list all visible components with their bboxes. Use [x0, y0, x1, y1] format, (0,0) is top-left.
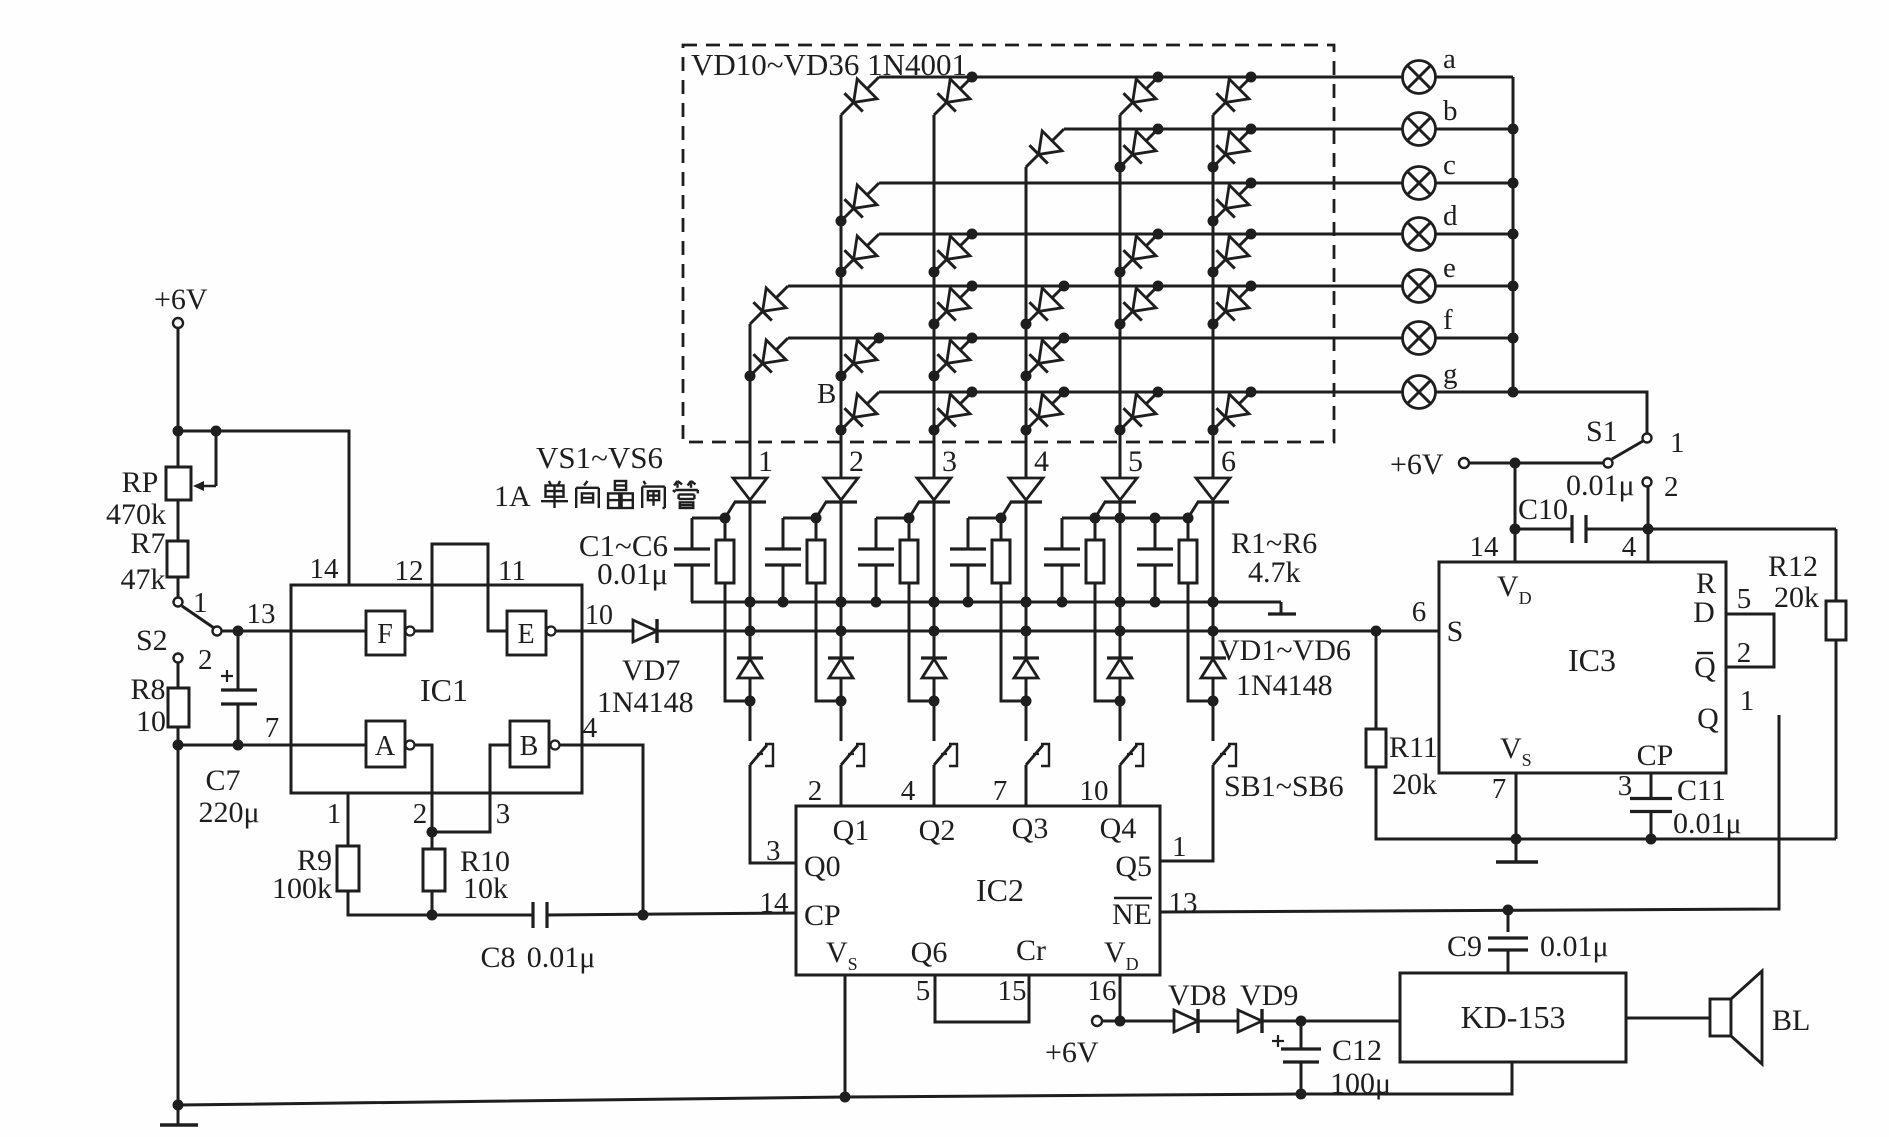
- svg-text:Cr: Cr: [1016, 934, 1046, 967]
- gate node wire VS1: [692, 517, 725, 520]
- wire column 3 (matrix to thyristor): [933, 115, 936, 478]
- resistor R5: [1094, 518, 1097, 540]
- wire gate F output to pin 12/11 bridge to gate E: [414, 544, 507, 631]
- svg-text:F: F: [377, 619, 393, 650]
- wire trigger bus (VD7 to IC3 S): [657, 630, 1439, 633]
- wire thyristor cathode bus: [691, 601, 1281, 604]
- matrix diode VD (row e, column 1): [750, 286, 788, 324]
- svg-text:R8: R8: [130, 673, 165, 706]
- wire column 1 (matrix to thyristor): [749, 324, 752, 478]
- switch S1: [1604, 434, 1652, 487]
- svg-text:1N4148: 1N4148: [597, 686, 694, 719]
- wire column 6 (matrix to thyristor): [1212, 115, 1215, 478]
- svg-text:1A: 1A: [494, 480, 531, 513]
- svg-text:C8: C8: [480, 941, 515, 974]
- wire VS5 cathode down: [1119, 502, 1122, 658]
- matrix diode VD (row d, column 3): [929, 229, 978, 278]
- svg-text:13: 13: [247, 598, 276, 630]
- svg-text:E: E: [517, 619, 534, 650]
- svg-text:+6V: +6V: [1390, 448, 1444, 481]
- svg-text:Q0: Q0: [804, 850, 841, 883]
- matrix diode VD (row b, column 6): [1208, 124, 1257, 173]
- matrix diode VD (row g, column 6): [1208, 387, 1257, 436]
- svg-text:+6V: +6V: [154, 283, 208, 316]
- svg-text:C11: C11: [1677, 774, 1726, 807]
- svg-text:B: B: [817, 378, 836, 410]
- push button SB2: [841, 701, 864, 766]
- gate node wire VS2: [783, 517, 816, 520]
- svg-text:14: 14: [1470, 531, 1500, 563]
- wire IC2 Vs to ground rail: [844, 975, 847, 1097]
- capacitor C12: [1300, 1021, 1303, 1049]
- diode VD7: [633, 619, 657, 643]
- push button SB1: [750, 701, 773, 766]
- svg-text:2: 2: [198, 644, 213, 676]
- svg-text:R11: R11: [1389, 731, 1438, 764]
- svg-text:7: 7: [1492, 773, 1507, 805]
- svg-text:1: 1: [1740, 685, 1755, 717]
- svg-text:e: e: [1443, 252, 1456, 284]
- matrix diode VD (row f, column 3): [929, 333, 978, 382]
- svg-text:C7: C7: [205, 764, 240, 797]
- svg-text:6: 6: [1221, 445, 1236, 478]
- lamp a: [1403, 61, 1436, 94]
- wire C8 line: [432, 914, 533, 917]
- svg-text:S: S: [1447, 615, 1464, 648]
- svg-text:Q3: Q3: [1012, 812, 1049, 845]
- wire IC1 pin13 to gate F input: [222, 630, 366, 633]
- wire column 2 (matrix to thyristor): [840, 115, 843, 478]
- svg-text:C9: C9: [1447, 930, 1482, 963]
- lamp g: [1403, 376, 1436, 409]
- svg-text:15: 15: [998, 975, 1027, 1007]
- svg-text:IC3: IC3: [1568, 642, 1616, 678]
- svg-text:2: 2: [808, 775, 823, 807]
- potentiometer RP: [166, 467, 191, 500]
- matrix diode VD (row b, column 4): [1026, 129, 1064, 167]
- matrix diode VD (row d, column 6): [1208, 229, 1257, 278]
- wire IC3 D (pin5) to Q-bar (pin2): [1726, 614, 1774, 667]
- svg-text:0.01μ: 0.01μ: [597, 556, 668, 591]
- svg-text:4: 4: [901, 775, 916, 807]
- svg-text:c: c: [1443, 149, 1456, 181]
- capacitor C4: [967, 518, 970, 549]
- svg-text:KD-153: KD-153: [1461, 999, 1566, 1035]
- wire VS6 cathode down: [1212, 502, 1215, 658]
- svg-text:BL: BL: [1772, 1004, 1810, 1037]
- capacitor C2: [782, 518, 785, 549]
- svg-text:g: g: [1443, 358, 1458, 390]
- svg-text:Q: Q: [1697, 702, 1719, 735]
- lamp b: [1403, 113, 1436, 146]
- wire +6V node to IC1 pin14: [178, 431, 349, 585]
- matrix diode VD (row b, column 5): [1115, 124, 1164, 173]
- svg-text:b: b: [1443, 95, 1458, 127]
- wire SB6 to IC2 Q5 (pin 1): [1160, 765, 1213, 861]
- svg-text:VS1~VS6: VS1~VS6: [536, 440, 663, 475]
- svg-text:D: D: [1693, 596, 1715, 629]
- wire IC1 pin10 output: [582, 630, 633, 633]
- wire pin7 line: [178, 744, 291, 747]
- resistor R11: [1375, 631, 1378, 729]
- svg-text:VD1~VD6: VD1~VD6: [1218, 634, 1351, 667]
- diode VD5: [1107, 658, 1133, 701]
- terminal +6V (oscillator supply): [173, 318, 183, 328]
- matrix diode VD (row e, column 3): [929, 281, 978, 330]
- thyristor VS3: [909, 478, 951, 518]
- resistor R2: [815, 518, 818, 540]
- matrix diode VD (row g, column 3): [929, 387, 978, 436]
- svg-text:1N4148: 1N4148: [1236, 669, 1333, 702]
- wire +6V down to RP: [177, 328, 180, 467]
- wire row b: [1064, 128, 1403, 131]
- svg-text:Q4: Q4: [1100, 812, 1137, 845]
- ground (IC3): [1496, 839, 1538, 862]
- music IC KD-153: [1400, 973, 1626, 1062]
- svg-text:1: 1: [758, 445, 773, 478]
- svg-text:14: 14: [310, 553, 340, 585]
- svg-text:0.01μ: 0.01μ: [1673, 807, 1742, 840]
- gate node wire VS5: [1062, 517, 1095, 520]
- svg-text:2: 2: [1664, 471, 1679, 503]
- capacitor C3: [875, 518, 878, 549]
- lamp d: [1403, 218, 1436, 251]
- gate A (IC1): [366, 721, 415, 767]
- svg-text:Q: Q: [1694, 651, 1716, 684]
- wire IC3 R (pin4) to S1 contact 2: [1647, 487, 1650, 562]
- svg-text:NE: NE: [1112, 898, 1152, 931]
- svg-text:5: 5: [1128, 445, 1143, 478]
- resistor R6: [1187, 518, 1190, 540]
- capacitor C5: [1061, 518, 1064, 549]
- wire VS3 cathode down: [933, 502, 936, 658]
- svg-text:B: B: [520, 731, 539, 762]
- IC2 counter: [796, 806, 1160, 975]
- wire row d: [879, 233, 1403, 236]
- matrix diode VD (row e, column 5): [1115, 281, 1164, 330]
- svg-text:IC2: IC2: [976, 872, 1024, 908]
- wire IC2 NE (pin13) to IC3 Q (pin1): [1160, 715, 1779, 912]
- lamp c: [1403, 167, 1436, 200]
- matrix diode VD (row g, column 2): [836, 392, 880, 436]
- terminal +6V (lamp supply): [1459, 458, 1469, 468]
- matrix diode VD (row a, column 2): [841, 77, 879, 115]
- svg-text:A: A: [375, 731, 396, 762]
- wire lamp common bus: [1512, 77, 1515, 392]
- svg-text:2: 2: [413, 798, 428, 830]
- svg-text:d: d: [1443, 200, 1458, 232]
- wire R9 to C8 line: [348, 891, 432, 915]
- wire pin2-pin3 link to gate B input: [432, 745, 510, 832]
- svg-text:4: 4: [1622, 531, 1637, 563]
- svg-text:3: 3: [496, 798, 511, 830]
- matrix diode VD (row f, column 4): [1021, 333, 1070, 382]
- svg-text:11: 11: [498, 555, 526, 587]
- svg-text:10: 10: [585, 600, 613, 631]
- svg-text:VD7: VD7: [622, 654, 680, 687]
- capacitor C9: [1507, 910, 1510, 932]
- wire VS2 cathode down: [840, 502, 843, 658]
- wire S2 pivot to IC1 pin13: [222, 630, 238, 633]
- diode VD2: [828, 658, 854, 701]
- svg-text:220μ: 220μ: [198, 796, 259, 829]
- thyristor VS5: [1095, 478, 1137, 518]
- svg-text:3: 3: [942, 445, 957, 478]
- thyristor VS6: [1188, 478, 1230, 518]
- IC3 flip-flop: [1439, 562, 1726, 773]
- capacitor C6: [1154, 518, 1157, 549]
- svg-text:4.7k: 4.7k: [1248, 556, 1301, 589]
- svg-text:1: 1: [1172, 831, 1187, 863]
- push button SB4: [1026, 701, 1049, 766]
- switch S2: [174, 598, 222, 663]
- wire R6 bottom to diode node: [1188, 583, 1213, 701]
- wire IC3 CP (pin3) to C11: [1650, 773, 1653, 799]
- wire column 4 (matrix to thyristor): [1025, 167, 1028, 478]
- thyristor VS2: [816, 478, 858, 518]
- svg-text:R12: R12: [1768, 550, 1818, 583]
- push button SB6: [1213, 701, 1236, 766]
- push button SB3: [934, 701, 957, 766]
- wire row f: [788, 337, 1403, 340]
- wire C12 to ground rail: [1300, 1062, 1303, 1094]
- svg-text:f: f: [1443, 304, 1453, 336]
- svg-text:12: 12: [395, 555, 424, 587]
- matrix diode VD (row c, column 2): [836, 183, 880, 227]
- matrix diode VD (row c, column 6): [1208, 178, 1257, 227]
- wire KD-153 to speaker: [1626, 1017, 1710, 1020]
- capacitor C10: [1515, 528, 1572, 531]
- wire row c: [879, 182, 1403, 185]
- diode matrix enclosure VD10~VD36: [683, 45, 1334, 442]
- matrix diode VD (row a, column 3): [934, 72, 978, 116]
- diode VD9: [1238, 1009, 1262, 1033]
- resistor R9: [337, 846, 359, 891]
- gate B (IC1): [510, 721, 560, 767]
- thyristor VS1: [725, 478, 767, 518]
- svg-text:C12: C12: [1332, 1034, 1382, 1067]
- resistor R12: [1835, 529, 1838, 601]
- svg-text:4: 4: [1034, 445, 1049, 478]
- capacitor C8: [533, 902, 547, 928]
- matrix diode VD (row d, column 2): [836, 234, 880, 278]
- label 单向晶闸管 (unidirectional thyristor): [541, 481, 698, 508]
- wire R5 bottom to diode node: [1095, 583, 1120, 701]
- svg-text:0.01μ: 0.01μ: [1540, 930, 1609, 963]
- svg-text:C10: C10: [1518, 493, 1568, 526]
- terminal +6V (melody supply): [1092, 1016, 1102, 1026]
- resistor R7: [167, 541, 188, 577]
- wire R3 bottom to diode node: [909, 583, 934, 701]
- resistor R3: [908, 518, 911, 540]
- svg-text:0.01μ: 0.01μ: [527, 941, 596, 974]
- wire R7 to S2 contact 1: [177, 577, 180, 597]
- diode VD8: [1174, 1009, 1198, 1033]
- svg-text:1: 1: [1670, 427, 1685, 459]
- svg-text:13: 13: [1169, 887, 1198, 919]
- gate F (IC1): [366, 611, 415, 655]
- speaker BL: [1710, 971, 1762, 1064]
- wire IC3 Vd (pin14) to +6V switch line: [1514, 463, 1517, 562]
- wire gate A output to pin 2: [414, 745, 432, 832]
- wire VS4 cathode down: [1025, 502, 1028, 658]
- svg-text:7: 7: [993, 775, 1008, 807]
- svg-text:5: 5: [916, 975, 931, 1007]
- wire SB2 to IC2 (pin 2): [840, 765, 843, 806]
- wire R2 bottom to diode node: [816, 583, 841, 701]
- svg-text:100k: 100k: [272, 872, 332, 905]
- wire ground rail: [178, 1062, 1512, 1105]
- wire R11 to ground rail of IC3: [1376, 767, 1836, 839]
- matrix diode VD (row e, column 6): [1208, 281, 1257, 330]
- wire Q6-Cr link: [935, 975, 1029, 1022]
- svg-text:VD8: VD8: [1168, 979, 1226, 1012]
- ground (main): [160, 1105, 198, 1125]
- matrix diode VD (row f, column 1): [745, 338, 789, 382]
- wire row e: [788, 285, 1403, 288]
- matrix diode VD (row d, column 5): [1115, 229, 1164, 278]
- IC1 gate package: [291, 585, 582, 793]
- svg-text:4: 4: [583, 712, 598, 744]
- svg-text:Q1: Q1: [833, 814, 870, 847]
- wire column 5 (matrix to thyristor): [1119, 115, 1122, 478]
- wire +6V to VD8: [1102, 1020, 1174, 1023]
- wire R1 bottom to diode node: [725, 583, 750, 701]
- matrix diode VD (row a, column 6): [1213, 72, 1257, 116]
- capacitor C11: [1630, 799, 1672, 812]
- diode VD6: [1200, 658, 1226, 701]
- wire SB1 to IC2 Q0 (pin 3): [750, 765, 796, 863]
- lamp f: [1403, 322, 1436, 355]
- capacitor C7 (electrolytic): [237, 631, 240, 690]
- svg-text:7: 7: [265, 712, 280, 744]
- wire VD8 to VD9: [1198, 1020, 1238, 1023]
- wire VD9 to KD-153: [1262, 1020, 1400, 1023]
- svg-text:SB1~SB6: SB1~SB6: [1224, 770, 1344, 803]
- svg-text:1: 1: [327, 798, 342, 830]
- resistor R1: [724, 518, 727, 540]
- wire IC3 Vs (pin7) to ground: [1515, 773, 1518, 839]
- ground (cathode bus): [1268, 602, 1296, 614]
- wire row g: [879, 391, 1403, 394]
- wire IC1 pin7 to gate A input: [291, 744, 366, 747]
- matrix diode VD (row g, column 4): [1021, 387, 1070, 436]
- wire gate B output to pin 4: [559, 745, 643, 915]
- matrix diode VD (row a, column 5): [1120, 72, 1164, 116]
- wire IC1 pin1 to R9: [347, 793, 350, 846]
- wire IC2 Vd (pin16) to +6V node: [1119, 975, 1122, 1021]
- svg-text:Q5: Q5: [1115, 850, 1152, 883]
- wire R4 bottom to diode node: [1001, 583, 1026, 701]
- resistor R10: [431, 832, 434, 849]
- diode VD1: [737, 658, 763, 701]
- svg-text:10: 10: [136, 705, 166, 738]
- resistor R8: [168, 688, 189, 727]
- svg-text:+6V: +6V: [1045, 1036, 1099, 1069]
- svg-text:S2: S2: [136, 624, 168, 657]
- wire +6V to S1 pivot: [1469, 462, 1603, 465]
- wire VS1 cathode down: [749, 502, 752, 658]
- svg-text:1: 1: [193, 587, 208, 619]
- svg-text:CP: CP: [804, 899, 841, 932]
- svg-text:2: 2: [849, 445, 864, 478]
- wire SB4 to IC2 (pin 7): [1025, 765, 1028, 806]
- svg-text:16: 16: [1088, 975, 1117, 1007]
- svg-text:20k: 20k: [1774, 581, 1819, 614]
- wire SB3 to IC2 (pin 4): [933, 765, 936, 806]
- lamp e: [1403, 270, 1436, 303]
- wire R10 to C8 line: [431, 891, 434, 915]
- resistor R4: [1000, 518, 1003, 540]
- capacitor C1: [691, 518, 694, 549]
- wire S2 contact 2 to R8: [177, 663, 180, 688]
- gate node wire VS4: [968, 517, 1001, 520]
- svg-text:20k: 20k: [1392, 768, 1437, 801]
- matrix diode VD (row f, column 2): [836, 333, 885, 382]
- svg-text:S1: S1: [1586, 415, 1618, 448]
- svg-text:R7: R7: [130, 527, 165, 560]
- wire row a: [879, 76, 1403, 79]
- svg-text:a: a: [1443, 43, 1456, 75]
- svg-text:6: 6: [1412, 596, 1427, 628]
- wire RP to R7: [177, 500, 180, 541]
- wire C8 to IC2 CP (pin14): [547, 913, 796, 915]
- svg-text:IC1: IC1: [420, 672, 468, 708]
- wire SB5 to IC2 (pin 10): [1119, 765, 1122, 806]
- wire S1 contact 2 down: [1647, 487, 1650, 529]
- diode VD4: [1013, 658, 1039, 701]
- thyristor VS4: [1001, 478, 1043, 518]
- gate node wire VS6: [1095, 517, 1188, 520]
- push button SB5: [1120, 701, 1143, 766]
- svg-text:0.01μ: 0.01μ: [1566, 469, 1635, 502]
- svg-text:Q2: Q2: [919, 814, 956, 847]
- gate E (IC1): [507, 611, 556, 655]
- svg-text:2: 2: [1737, 637, 1752, 669]
- gate node wire VS3: [876, 517, 909, 520]
- svg-text:3: 3: [766, 835, 781, 867]
- svg-text:10k: 10k: [463, 872, 508, 905]
- matrix diode VD (row e, column 4): [1021, 281, 1070, 330]
- wire lamp bus to S1: [1513, 392, 1647, 433]
- wire R8 down to ground rail: [177, 727, 180, 1105]
- svg-text:10: 10: [1080, 775, 1109, 807]
- svg-text:VD9: VD9: [1240, 979, 1298, 1012]
- svg-text:RP: RP: [122, 466, 159, 499]
- diode VD3: [921, 658, 947, 701]
- svg-text:CP: CP: [1637, 739, 1674, 772]
- svg-text:47k: 47k: [121, 563, 166, 596]
- svg-text:5: 5: [1737, 583, 1752, 615]
- wire gate E output to pin 10: [555, 630, 582, 633]
- matrix diode VD (row g, column 5): [1115, 387, 1164, 436]
- svg-text:Q6: Q6: [911, 936, 948, 969]
